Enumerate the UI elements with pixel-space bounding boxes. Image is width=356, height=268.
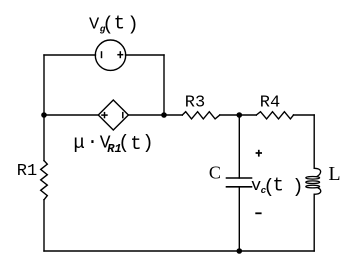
resistor R1 zigzag xyxy=(41,161,48,200)
plus sign inside diamond xyxy=(101,114,108,116)
svg-text:L: L xyxy=(328,163,340,185)
label mu*V_R1(t) for dependent source xyxy=(73,131,153,156)
wire bottom rail xyxy=(44,250,314,252)
resistor R4 zigzag xyxy=(256,112,293,119)
wire left vertical: R1 down to bottom-left corner xyxy=(43,200,45,251)
wire node A to dependent source left vertex xyxy=(44,114,98,116)
node B junction dot xyxy=(161,112,167,118)
wire top-left: top rail from left corner to source circle xyxy=(44,54,96,56)
node C-bottom junction dot xyxy=(237,248,243,254)
label V_g(t) for source xyxy=(89,13,139,36)
resistor R3 zigzag xyxy=(182,112,220,119)
inductor L bottom hook xyxy=(314,188,321,194)
plus sign inside source circle xyxy=(117,54,123,56)
capacitor C bottom plate xyxy=(227,186,252,188)
minus bar inside source circle xyxy=(101,51,103,58)
svg-text:(: ( xyxy=(102,13,113,35)
wire node B to R3 xyxy=(164,114,182,116)
wire left vertical upper: top-left corner down to node A xyxy=(43,55,45,115)
minus polarity mark below capacitor xyxy=(255,212,261,214)
svg-text:R4: R4 xyxy=(260,94,280,113)
wire capacitor branch upper xyxy=(238,115,240,178)
node C-top junction dot xyxy=(237,112,243,118)
svg-text:): ) xyxy=(127,13,138,35)
svg-text:): ) xyxy=(292,176,303,198)
svg-text:t: t xyxy=(273,175,284,197)
svg-text:t: t xyxy=(114,13,125,35)
svg-text:): ) xyxy=(142,132,153,154)
capacitor C top plate xyxy=(227,177,252,179)
wire capacitor branch lower xyxy=(238,187,240,251)
plus polarity mark above capacitor xyxy=(256,152,262,154)
svg-text:V: V xyxy=(89,16,100,35)
inductor L loop 2 xyxy=(306,181,320,184)
wire dependent source right vertex to node B xyxy=(128,114,164,116)
svg-text:(: ( xyxy=(118,132,129,154)
voltage source V_g circle xyxy=(95,40,125,70)
wire top-right: source circle to top-right corner xyxy=(126,54,165,56)
wire left vertical: node A down to R1 xyxy=(43,115,45,161)
inductor L loop 3 xyxy=(306,185,320,188)
minus bar inside diamond xyxy=(122,112,124,118)
wire L branch vertical lower xyxy=(313,194,315,251)
svg-text:t: t xyxy=(130,133,141,155)
svg-text:μ: μ xyxy=(73,132,84,154)
svg-text:C: C xyxy=(209,162,221,182)
svg-text:R1: R1 xyxy=(17,162,37,181)
wire node C-top to R4 xyxy=(239,114,256,116)
node A junction dot xyxy=(41,112,47,118)
inductor L top hook xyxy=(314,168,320,176)
dependent source U1 diamond xyxy=(98,100,128,130)
svg-text:·: · xyxy=(87,131,98,153)
svg-text:R3: R3 xyxy=(185,94,205,113)
inductor L loop 1 xyxy=(306,177,320,180)
wire L branch vertical upper xyxy=(313,115,315,168)
wire R3 to node C-top xyxy=(220,114,240,116)
wire right-of-source vertical down to node B xyxy=(163,55,165,115)
wire R4 to top-right corner of L branch xyxy=(294,114,315,116)
label v_c(t) capacitor voltage xyxy=(251,175,304,198)
